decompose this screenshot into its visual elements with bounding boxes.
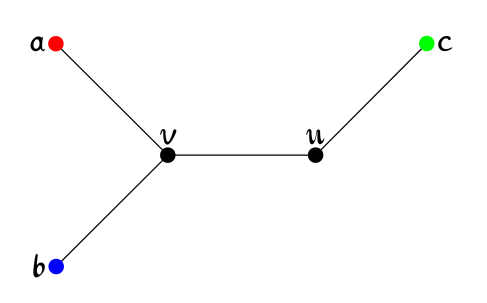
node c (green vertex)	[419, 36, 435, 52]
label b	[33, 254, 44, 277]
node u (black vertex)	[308, 147, 324, 163]
node v (black vertex)	[160, 147, 176, 163]
label c	[438, 36, 452, 51]
wire edge b-v	[56, 155, 168, 266]
label u	[306, 129, 324, 144]
label a	[31, 37, 45, 51]
node a (red vertex)	[48, 36, 64, 52]
wire edge a-v	[56, 44, 168, 155]
label v	[160, 129, 176, 144]
wire edge v-u	[168, 154, 316, 156]
wire edge u-c	[316, 44, 427, 156]
node b (blue vertex)	[48, 259, 64, 275]
